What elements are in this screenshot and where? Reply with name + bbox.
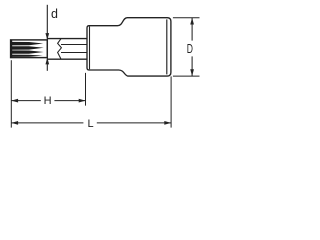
hex facet line lower	[61, 52, 87, 54]
d arrow down	[45, 33, 49, 40]
L arrow left	[11, 121, 18, 125]
d dimension leader line	[46, 5, 48, 71]
svg-text:D: D	[187, 42, 193, 56]
L arrow right	[164, 121, 171, 125]
D arrow up	[190, 18, 194, 25]
bit spline section outline	[11, 40, 48, 59]
D arrow down	[190, 69, 194, 76]
d arrow up	[45, 58, 49, 65]
hex shank bottom edge	[47, 58, 87, 60]
spline teeth	[11, 42, 44, 57]
hex facet line upper	[61, 44, 87, 46]
H dimension line	[11, 100, 85, 102]
H arrow left	[11, 99, 18, 103]
D bottom extension line	[173, 75, 200, 77]
socket drive-end ring line	[166, 19, 168, 74]
left extension line	[10, 60, 12, 127]
hex shank top edge	[47, 38, 87, 40]
svg-text:H: H	[44, 95, 52, 107]
D top extension line	[173, 17, 200, 19]
hex chamfer zigzag	[58, 39, 62, 59]
L dimension line	[11, 122, 171, 124]
D dimension line	[191, 18, 193, 76]
H arrow right	[79, 99, 86, 103]
L right extension line	[170, 76, 172, 127]
svg-text:L: L	[88, 118, 94, 130]
socket nose face inner line	[89, 26, 91, 69]
svg-text:d: d	[51, 7, 58, 21]
H extension line	[85, 73, 87, 106]
socket outline	[87, 18, 171, 76]
